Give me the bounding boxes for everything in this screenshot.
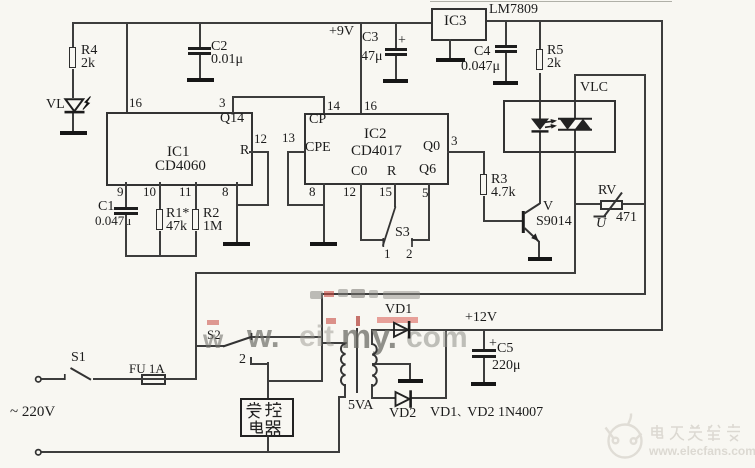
wire rail B (triac top to primary node)	[321, 293, 646, 295]
transformer secondary coil	[372, 344, 377, 386]
pin label CPE	[305, 142, 331, 155]
pin 13 label	[282, 132, 295, 145]
pin label CP	[309, 114, 326, 127]
LED VL label	[46, 99, 65, 112]
wire C4 bottom	[505, 53, 507, 81]
wire secondary centre tap	[372, 363, 411, 365]
triac inside VLC	[558, 119, 592, 130]
wire down to appliance	[267, 362, 269, 399]
switch S1 label	[71, 352, 86, 365]
fuse FU 1A	[141, 374, 166, 385]
pin 12 label IC1	[254, 133, 267, 146]
varistor RV wires	[576, 203, 601, 205]
pin 11 label IC1	[179, 186, 192, 199]
ground below centre tap	[398, 379, 423, 383]
wire primary bottom lead	[344, 384, 346, 398]
wire triac top vertical	[574, 75, 576, 119]
pin 10 label IC1	[143, 186, 156, 199]
diode VD1	[394, 321, 410, 339]
pin label C0	[351, 166, 367, 179]
wire R2 bottom	[195, 231, 197, 257]
capacitor C2	[188, 47, 211, 50]
IC IC1 CD4060 box	[106, 112, 253, 186]
wire R5 top	[539, 20, 541, 49]
pin 3 label IC1	[219, 97, 226, 110]
label ~220V	[10, 406, 55, 419]
resistor R4	[69, 47, 76, 68]
wire +12V rail	[372, 329, 663, 331]
wire secondary to VD1	[372, 329, 394, 331]
transistor V labels	[543, 201, 553, 214]
varistor RV body	[600, 200, 623, 210]
ground below C4	[493, 81, 518, 85]
wire IC1 pin9 to C1	[125, 182, 127, 207]
pin 15 label IC2	[379, 186, 392, 199]
switch S2 blade	[223, 333, 252, 347]
switch S3 blade	[383, 207, 412, 248]
pin label Q0	[423, 141, 440, 154]
ground below IC1 pin8	[223, 242, 250, 246]
watermark elecfans logo	[606, 414, 642, 458]
resistor R5	[536, 49, 543, 70]
wire CPE pin13 loop to pin8	[287, 151, 304, 153]
optocoupler VLC box	[503, 100, 616, 153]
wire S1 to fuse	[93, 378, 141, 380]
switch S2 wire from mains node	[195, 345, 224, 347]
wire Q6 pin5 down	[428, 183, 430, 241]
wire mains node vertical	[195, 272, 197, 380]
pin label Q14	[220, 113, 244, 126]
wire C4 top	[505, 20, 507, 45]
appliance text 电器	[251, 421, 262, 433]
wire R1 bottom	[159, 231, 161, 257]
pin 8 label IC1	[222, 186, 229, 199]
node +12V label	[465, 312, 497, 325]
wire IC3 ground pin	[449, 39, 451, 58]
wire IC2 pin8 to ground	[323, 183, 325, 242]
wire appliance link	[268, 380, 323, 382]
wire R4 to VL	[72, 69, 74, 98]
wire IC1 pin8 to ground	[236, 182, 238, 242]
pin 9 label IC1	[117, 186, 124, 199]
wire primary node vertical	[321, 293, 323, 382]
capacitor C5	[483, 329, 485, 350]
transformer primary coil	[341, 344, 346, 386]
wire VL to ground	[72, 113, 74, 132]
ground below VL	[60, 131, 87, 135]
switch S1 blade and terminal	[36, 368, 91, 382]
wire IC2 pin16 vertical	[360, 22, 362, 113]
wire mains rail A (triac bottom to fuse node)	[195, 272, 576, 274]
pin 8 label IC2	[309, 186, 316, 199]
LED VL symbol	[65, 97, 91, 114]
wire secondary top lead	[371, 329, 373, 345]
capacitor C1	[114, 207, 138, 210]
wire Q0 pin3 out	[447, 151, 485, 153]
wire IC1 pin11 to R2	[195, 182, 197, 209]
wire S1 terminal to blade	[41, 378, 65, 380]
label LM7809	[489, 4, 538, 17]
appliance box 受控电器	[240, 398, 294, 437]
node contact 2 label	[239, 354, 246, 367]
wire C1 bottom	[125, 215, 127, 257]
opto LED inside VLC	[531, 119, 557, 133]
pin 5 label IC2	[422, 187, 429, 200]
appliance text 受控	[247, 402, 262, 418]
ground below C2	[187, 78, 214, 82]
capacitor C3	[385, 48, 407, 51]
pin 3 label IC2	[451, 135, 458, 148]
faint scan line at top edge	[430, 1, 672, 2]
pin 14 label IC2	[327, 100, 340, 113]
IC IC3 LM7809 regulator box	[431, 8, 487, 41]
wire bottom neutral rail	[41, 451, 340, 453]
wire right outer vertical (+12V to IC3)	[661, 20, 663, 331]
label 5VA	[348, 400, 373, 413]
resistor R3	[480, 174, 487, 195]
pin label R of IC2	[387, 166, 396, 179]
node +9V label	[329, 26, 354, 39]
diode VD1 label	[385, 304, 412, 317]
watermark grey smudge row	[310, 291, 323, 299]
wire C3 top	[395, 22, 397, 48]
pin 16 label IC1	[129, 97, 142, 110]
ground below C5	[471, 382, 496, 386]
wire primary top lead	[321, 342, 347, 344]
neutral terminal circle	[36, 450, 41, 455]
wire inner right vertical	[644, 75, 646, 295]
watermark elecfans text	[649, 444, 755, 458]
varistor RV diagonal	[594, 193, 623, 217]
wire opto LED to transistor collector	[539, 132, 541, 204]
wire R3 to base	[483, 196, 485, 222]
wire IC1 pin16 vertical	[126, 22, 128, 113]
watermark text 电子发烧友	[652, 424, 740, 441]
wire triac top link	[574, 74, 646, 76]
wire IC1 pin3 to IC2 pin14	[232, 96, 234, 113]
wire C2 top	[199, 22, 201, 47]
wire oscillator join	[125, 255, 197, 257]
wire VD2 cathode up to +12V	[411, 397, 447, 399]
ground below emitter	[528, 257, 552, 261]
wire R pin15 down	[394, 183, 396, 207]
resistor R1*	[156, 209, 163, 230]
watermark red dashes	[324, 291, 334, 297]
capacitor C4	[495, 45, 517, 48]
ground below IC3	[436, 58, 465, 62]
watermark big grey text www.eitmy.com	[203, 324, 223, 355]
wire R5 to opto LED	[539, 73, 541, 119]
transformer T1 core	[356, 328, 358, 393]
label VD1 VD2 1N4007	[430, 407, 543, 421]
wire VD1 cathode to +12V	[410, 329, 448, 331]
wire emitter to ground	[538, 241, 540, 258]
diode VD2	[396, 390, 412, 408]
transistor V S9014	[522, 204, 540, 242]
pin label Q6	[419, 164, 436, 177]
resistor R2	[192, 209, 199, 230]
pin label R of IC1	[240, 145, 249, 158]
ground below IC2 pin8	[310, 242, 337, 246]
wire R4 top	[72, 22, 74, 47]
wire triac bottom vertical	[574, 130, 576, 274]
switch S3 labels	[395, 227, 410, 240]
ground below C3	[383, 79, 408, 83]
pin 16 label IC2	[364, 100, 377, 113]
diode VD2 label	[389, 408, 416, 421]
wire C0 pin12 down	[360, 183, 362, 241]
wire contact2	[250, 357, 252, 364]
IC IC2 CD4017 box	[304, 113, 449, 185]
wire C3 bottom	[395, 56, 397, 79]
wire Q0 to R3	[483, 151, 485, 174]
wire appliance to neutral	[267, 435, 269, 452]
wire IC1 R pin12 loop to pin8	[249, 151, 269, 153]
wire C2 bottom	[199, 55, 201, 78]
wire fuse to mains node	[141, 378, 197, 380]
wire IC3 output rail	[487, 20, 663, 22]
wire +9V rail	[73, 22, 433, 24]
switch S2 label	[207, 329, 221, 342]
wire secondary bottom lead	[371, 384, 373, 399]
wire IC1 pin10 to R1	[159, 182, 161, 209]
pin 12 label IC2	[343, 186, 356, 199]
wire S2 contact to primary node	[251, 336, 323, 338]
